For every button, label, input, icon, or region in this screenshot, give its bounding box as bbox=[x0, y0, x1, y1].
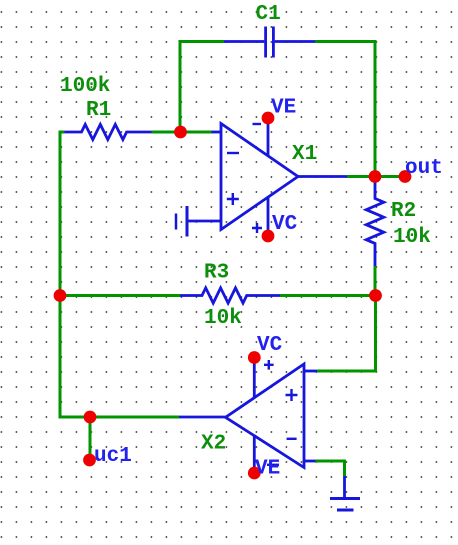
svg-text:VE: VE bbox=[255, 458, 280, 481]
svg-text:C1: C1 bbox=[256, 3, 281, 26]
svg-text:R2: R2 bbox=[391, 200, 416, 223]
svg-text:X1: X1 bbox=[292, 143, 317, 166]
svg-text:10k: 10k bbox=[204, 307, 242, 330]
svg-text:VC: VC bbox=[272, 213, 298, 236]
svg-text:out: out bbox=[405, 157, 443, 180]
svg-text:100k: 100k bbox=[60, 75, 110, 98]
svg-text:X2: X2 bbox=[201, 433, 226, 456]
svg-text:R1: R1 bbox=[86, 99, 111, 122]
svg-text:R3: R3 bbox=[204, 262, 229, 285]
svg-text:VC: VC bbox=[257, 334, 283, 357]
svg-text:uc1: uc1 bbox=[94, 445, 132, 468]
svg-text:VE: VE bbox=[271, 97, 296, 120]
svg-text:10k: 10k bbox=[393, 226, 431, 249]
